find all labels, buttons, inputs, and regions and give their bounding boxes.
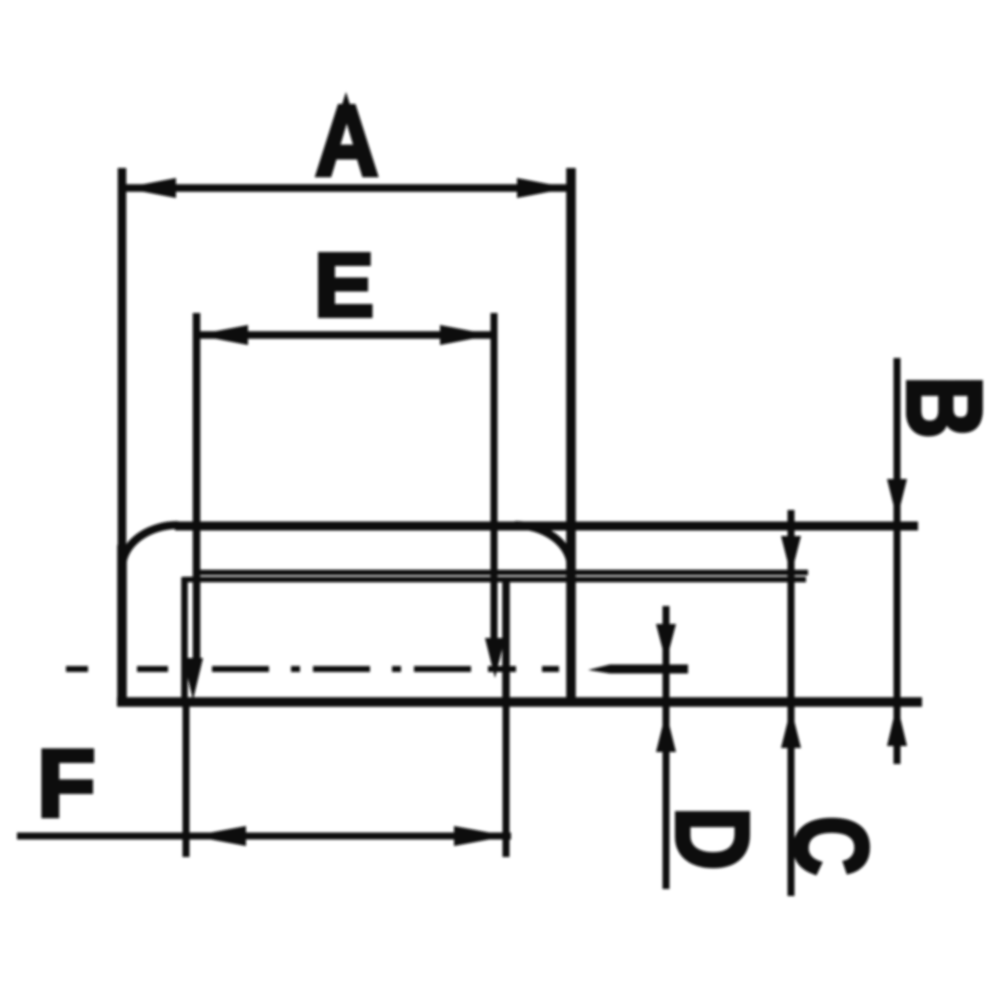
dimension B upper arrowhead pointing down (887, 479, 907, 519)
dimension E line (196, 331, 492, 339)
dimension B line (894, 358, 901, 764)
extension line left of dimension A (118, 168, 127, 560)
svg-text:C: C (774, 816, 889, 876)
dimension C lower arrowhead pointing up (781, 708, 801, 748)
dimension D upper arrowhead pointing down (656, 624, 676, 662)
dimension C upper arrowhead pointing down (781, 536, 801, 575)
part inner step lower edge (183, 577, 806, 583)
svg-text:F: F (37, 730, 96, 837)
dimension D lower arrowhead pointing up (656, 712, 676, 752)
part bore right edge (502, 577, 510, 702)
F extension line right (below bore right edge) (503, 700, 510, 857)
part rounded corner top-left (122, 525, 178, 568)
F extension line left (below bore left edge) (183, 700, 190, 857)
part bore left edge (181, 577, 188, 702)
label C rotated (774, 816, 889, 876)
centerline dash-dot (66, 666, 559, 672)
dimension F left arrowhead (192, 826, 246, 846)
dimension A line (124, 184, 569, 192)
part inner step upper edge with extension to C dimension (197, 570, 808, 576)
dimension D line (663, 606, 670, 889)
dimension F line (17, 833, 511, 840)
arrow blob on E left extension pointing down (183, 658, 203, 700)
svg-text:D: D (654, 807, 769, 870)
svg-text:B: B (885, 376, 1000, 439)
extension line right of dimension E (491, 313, 498, 645)
part rounded corner top-right (515, 525, 571, 568)
label A apex spike (339, 92, 353, 114)
label D rotated (654, 807, 769, 870)
dimension F right arrowhead (454, 826, 508, 846)
arrow blob on E right extension pointing down (485, 638, 505, 678)
dimension B lower arrowhead pointing up (887, 704, 907, 746)
svg-text:E: E (314, 236, 374, 336)
dimension E right arrowhead (440, 325, 492, 345)
centerline tick through D with left point (588, 665, 688, 674)
dimension A left arrowhead (124, 178, 176, 198)
dimension E left arrowhead (196, 325, 248, 345)
part bottom edge with extensions (117, 697, 922, 707)
part left edge (117, 545, 127, 700)
extension line left of dimension E (193, 313, 201, 660)
dimension C line (788, 510, 795, 896)
svg-text:A: A (315, 85, 379, 196)
part top edge with extension to B dimension (175, 522, 918, 531)
label B rotated (885, 376, 1000, 439)
dimension A right arrowhead (517, 178, 569, 198)
extension line right of dimension A / part right edge (566, 168, 576, 701)
